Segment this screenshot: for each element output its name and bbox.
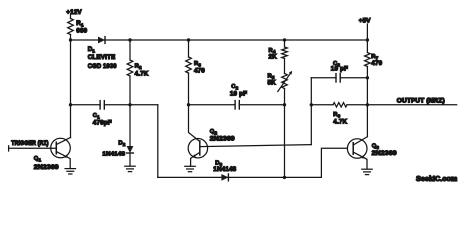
node R3/C2/Q2-base junction <box>187 103 190 106</box>
transistor Q3 <box>347 137 367 169</box>
svg-text:+12V: +12V <box>66 9 82 16</box>
ground D2 cathode <box>125 165 135 167</box>
node TRIGGER input terminal tick <box>8 146 10 151</box>
wire rail to R4 <box>284 40 286 47</box>
wire R2 to node <box>129 76 131 105</box>
wire D2 to ground <box>129 153 131 166</box>
node rail-+5V junction <box>366 38 369 41</box>
svg-text:4.7K: 4.7K <box>135 70 149 77</box>
svg-text:470: 470 <box>371 60 382 67</box>
wire top rail <box>71 39 368 41</box>
wire C1 to R2/D2 node <box>104 104 130 106</box>
svg-text:CGD 1030: CGD 1030 <box>88 63 117 70</box>
wire Q2 collector riser <box>310 78 312 145</box>
diode D2 <box>127 146 134 153</box>
wire R4 to R5 <box>284 59 286 74</box>
capacitor C3 <box>335 74 337 82</box>
wire Q1 collector to C1 <box>71 104 101 106</box>
node rail-R2 junction <box>128 38 131 41</box>
wire output node to Q3 collector <box>366 105 368 137</box>
capacitor C2 <box>234 101 236 109</box>
wire Q2 base feed <box>189 105 200 142</box>
wire R6 right <box>347 104 367 106</box>
svg-text:D1: D1 <box>88 46 96 53</box>
svg-text:2N2369: 2N2369 <box>34 164 59 171</box>
svg-text:470: 470 <box>194 67 205 74</box>
svg-text:2K: 2K <box>269 54 278 61</box>
svg-text:10 pF: 10 pF <box>331 66 348 73</box>
resistor R2 <box>127 60 133 76</box>
svg-text:R2: R2 <box>135 64 142 70</box>
wire bend down to bottom rail <box>157 105 159 178</box>
svg-text:470pF: 470pF <box>93 119 112 126</box>
wire R7 to C3 node <box>366 67 368 78</box>
wire R3 to C2 node <box>188 73 190 105</box>
capacitor C1 <box>99 101 101 109</box>
wire C3 right <box>340 77 367 79</box>
wire rail to R3 <box>188 40 190 57</box>
resistor R3 <box>186 57 192 73</box>
wire rail to R2 <box>129 40 131 60</box>
svg-text:10 pF: 10 pF <box>230 91 247 98</box>
wire bottom rail <box>158 176 322 178</box>
node rail-R3 junction <box>187 38 190 41</box>
node C3/R7 junction <box>366 76 369 79</box>
wire rail to R7 <box>366 40 368 53</box>
svg-text:C2: C2 <box>231 84 238 90</box>
node rail-R4 junction <box>283 38 286 41</box>
svg-text:1N4148: 1N4148 <box>102 152 125 158</box>
resistor R7 <box>365 53 371 67</box>
wire C3 left <box>311 77 336 79</box>
svg-text:2N2369: 2N2369 <box>210 136 235 143</box>
transistor Q1 <box>51 138 71 169</box>
diode D3 <box>221 174 228 181</box>
ground Q2 emitter <box>185 165 195 167</box>
wire Q1 collector riser <box>70 40 72 138</box>
potentiometer R5 (variable) <box>282 74 288 89</box>
svg-text:Q2: Q2 <box>210 129 218 135</box>
wire TRIGGER input to Q1 base <box>9 147 57 149</box>
svg-text:Q1: Q1 <box>34 156 42 162</box>
wire R5 to C2 node <box>284 89 286 105</box>
svg-text:5K: 5K <box>268 80 277 87</box>
svg-text:OUTPUT (NRZ): OUTPUT (NRZ) <box>397 98 445 104</box>
svg-text:TRIGGER (RZ): TRIGGER (RZ) <box>11 141 49 147</box>
node rail-R1 junction <box>69 38 72 41</box>
svg-text:R1: R1 <box>76 20 84 27</box>
node R5/C2 junction <box>283 103 286 106</box>
node C1 tap on Q1 collector <box>69 103 72 106</box>
resistor R1 <box>68 19 74 35</box>
ground Q3 emitter <box>362 168 372 170</box>
wire C2 to R5 node <box>239 104 284 106</box>
wire +5V stub <box>366 24 368 40</box>
svg-text:SeekIC.com: SeekIC.com <box>416 176 457 183</box>
svg-text:+5V: +5V <box>359 18 371 25</box>
transistor Q2 <box>188 139 311 167</box>
diode D1 <box>98 37 105 44</box>
svg-text:2N2369: 2N2369 <box>372 150 397 157</box>
wire node to D2 <box>129 105 131 146</box>
resistor R4 <box>282 47 288 59</box>
ground Q1 emitter <box>65 168 75 170</box>
wire R5 node down to bottom rail <box>284 105 286 178</box>
wire R3 node to C2 <box>189 104 236 106</box>
wire R6 left <box>311 104 333 106</box>
svg-text:CLEVITE: CLEVITE <box>88 54 116 61</box>
wire node to bend <box>130 104 158 106</box>
svg-text:680: 680 <box>76 28 87 35</box>
wire C3 node to output node <box>366 78 368 105</box>
svg-text:4.7K: 4.7K <box>333 119 347 126</box>
svg-text:1N4148: 1N4148 <box>213 166 236 173</box>
node R6 left junction <box>310 103 313 106</box>
node C1/R2/D2 junction <box>128 103 131 106</box>
node output junction <box>366 103 369 106</box>
wire output <box>367 104 456 106</box>
wire +12V stub <box>70 15 72 19</box>
node bottom rail junction <box>283 176 286 179</box>
resistor R6 <box>333 103 347 107</box>
svg-text:D2: D2 <box>118 140 125 146</box>
wire bottom rail up to Q3 base <box>321 148 347 177</box>
